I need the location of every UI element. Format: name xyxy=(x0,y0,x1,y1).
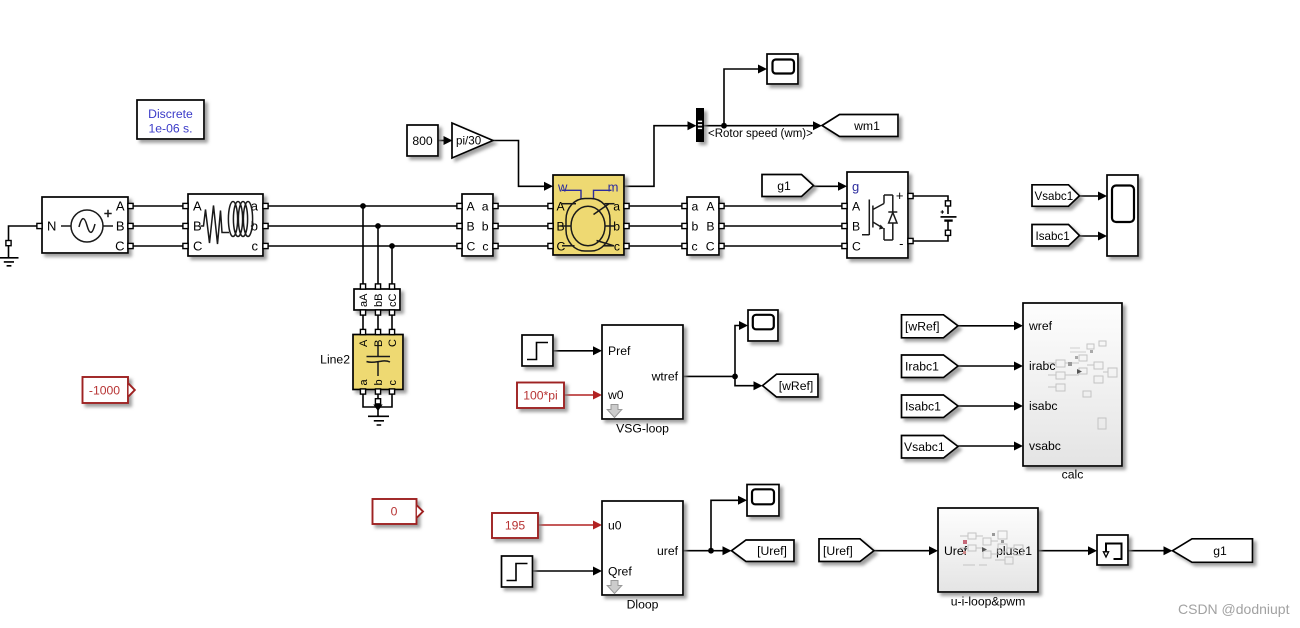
svg-text:bB: bB xyxy=(373,294,385,307)
wire Line2 outputs to ground node xyxy=(363,394,392,416)
svg-text:c: c xyxy=(482,240,488,254)
wire converter minus to DC source xyxy=(908,235,948,241)
wire branch up to uref scope xyxy=(711,496,747,551)
calc inner dark marks xyxy=(1068,350,1093,374)
three-phase programmable voltage source block xyxy=(42,197,128,254)
label VSG-loop xyxy=(616,422,669,436)
label calc xyxy=(1062,468,1084,482)
svg-text:A: A xyxy=(852,200,861,214)
node uref branch xyxy=(708,548,714,554)
svg-text:Isabc1: Isabc1 xyxy=(905,400,941,414)
wire phase A measurement1 to machine xyxy=(493,205,553,207)
svg-text:g1: g1 xyxy=(1213,544,1227,558)
node Line2 ground junction xyxy=(373,399,382,411)
svg-text:1e-06 s.: 1e-06 s. xyxy=(148,122,192,136)
svg-text:A: A xyxy=(193,199,202,214)
wire constant 800 to gain xyxy=(438,136,453,145)
wire step1 to Dloop Qref xyxy=(533,567,602,576)
scope wtref xyxy=(748,310,778,341)
svg-text:irabc: irabc xyxy=(1029,359,1055,373)
three-phase series RLC branch block xyxy=(188,194,263,256)
ports of machine xyxy=(548,203,629,248)
svg-text:[Uref]: [Uref] xyxy=(757,544,787,558)
svg-text:VSG-loop: VSG-loop xyxy=(616,422,669,436)
wire gain to machine w input xyxy=(493,141,553,191)
three-phase V-I measurement1 block xyxy=(462,194,493,256)
svg-text:u-i-loop&pwm: u-i-loop&pwm xyxy=(951,595,1026,609)
svg-text:m: m xyxy=(608,180,619,195)
wire phase c machine to measurement2 xyxy=(624,245,687,247)
scope rotor speed xyxy=(767,54,798,84)
svg-text:Vsabc1: Vsabc1 xyxy=(904,440,945,454)
svg-text:pi/30: pi/30 xyxy=(456,135,481,148)
wire branch to Uref goto xyxy=(711,546,732,555)
wire cC block to Line2 phase c xyxy=(391,315,393,331)
wire tap A down to Line2 measurement xyxy=(362,206,364,285)
svg-text:a: a xyxy=(358,379,370,386)
svg-text:B: B xyxy=(706,220,714,234)
svg-text:C: C xyxy=(467,240,476,254)
svg-text:vsabc: vsabc xyxy=(1029,439,1061,453)
ports of Line2 xyxy=(360,329,394,394)
wire machine m output to bus selector xyxy=(624,121,697,186)
svg-text:A: A xyxy=(116,199,125,214)
scope uref xyxy=(747,485,779,517)
goto tag wm1 xyxy=(822,115,898,137)
svg-text:b: b xyxy=(482,220,489,234)
svg-text:B: B xyxy=(193,219,202,234)
wire phase B measurement1 to machine xyxy=(493,225,553,227)
wire branch up to wtref scope xyxy=(735,321,748,376)
wire phase B source to RLC xyxy=(128,225,188,227)
universal bridge converter block xyxy=(847,172,908,258)
svg-text:C: C xyxy=(852,240,861,254)
wire Dloop uref output xyxy=(683,550,711,552)
wire u-i-loop to rate transition xyxy=(1038,546,1097,555)
svg-text:b: b xyxy=(373,379,385,385)
svg-text:[Uref]: [Uref] xyxy=(823,544,853,558)
wire Isabc1 to scope1 xyxy=(1080,232,1108,241)
three-phase V-I measurement aA bB cC block xyxy=(354,289,400,310)
ground G1 left xyxy=(0,241,19,266)
asynchronous machine block xyxy=(553,175,624,255)
svg-text:N: N xyxy=(47,219,56,234)
wire phase A source to RLC xyxy=(128,205,188,207)
svg-text:800: 800 xyxy=(412,134,433,148)
port b of RLC xyxy=(263,223,268,228)
u-i-loop faint inner diagram xyxy=(960,531,1023,565)
goto tag g1 xyxy=(1173,539,1253,563)
ground G2 below Line2 xyxy=(368,416,389,425)
from tag Vsabc1 top xyxy=(1032,185,1080,207)
port C of RLC xyxy=(183,243,188,248)
svg-text:u0: u0 xyxy=(608,519,622,533)
node tap B xyxy=(375,223,381,229)
constant -1000 red xyxy=(83,377,135,403)
wire branch to wRef goto xyxy=(735,376,763,390)
label Dloop xyxy=(627,598,659,612)
wire phase A measurement2 to converter xyxy=(719,205,847,207)
from tag Isabc1 top xyxy=(1032,225,1080,247)
wire Vsabc1 to scope1 xyxy=(1080,192,1108,201)
svg-text:<Rotor speed (wm)>: <Rotor speed (wm)> xyxy=(708,128,813,140)
svg-text:wtref: wtref xyxy=(651,370,679,384)
svg-text:+: + xyxy=(896,188,904,203)
constant 800 block xyxy=(407,125,438,156)
subsystem calc xyxy=(1023,303,1122,466)
svg-text:c: c xyxy=(692,240,698,254)
from tag g1 xyxy=(762,175,814,197)
svg-text:B: B xyxy=(852,220,860,234)
wire g1 from-tag to converter gate xyxy=(814,182,848,191)
node wtref branch xyxy=(732,374,738,380)
wire phase C measurement1 to machine xyxy=(493,245,553,247)
port B of source xyxy=(128,223,133,228)
svg-text:195: 195 xyxy=(505,519,526,533)
wire phase A RLC to measurement1 xyxy=(263,205,462,207)
node tap A xyxy=(360,203,366,209)
svg-text:A: A xyxy=(706,200,715,214)
constant 100*pi red xyxy=(517,383,564,409)
ports of measurement2 xyxy=(682,203,724,248)
svg-text:Discrete: Discrete xyxy=(148,107,193,121)
from tag wRef xyxy=(902,315,959,338)
constant 195 red xyxy=(492,513,538,538)
label u-i-loop&pwm xyxy=(951,595,1026,609)
node rotor speed branch xyxy=(721,123,727,129)
wire Isabc1 to calc isabc xyxy=(958,402,1023,411)
svg-text:[wRef]: [wRef] xyxy=(905,319,940,333)
port N of source xyxy=(37,223,42,228)
wire N to ground xyxy=(9,226,38,241)
subsystem VSG-loop xyxy=(602,325,683,419)
svg-text:B: B xyxy=(116,219,125,234)
powergui block Discrete 1e-06 s xyxy=(137,100,204,139)
u-i-loop inner dark marks xyxy=(963,533,1004,554)
wire Irabc1 to calc irabc xyxy=(958,362,1023,371)
port a of RLC xyxy=(263,203,268,208)
step block Pref xyxy=(522,335,553,366)
from tag Irabc1 xyxy=(902,355,959,378)
goto tag wRef xyxy=(763,374,819,397)
svg-text:a: a xyxy=(613,200,620,214)
svg-text:a: a xyxy=(482,200,489,214)
wire 100*pi to VSG w0 xyxy=(564,391,602,400)
constant 0 red xyxy=(373,499,424,524)
from tag Vsabc1 xyxy=(902,436,959,459)
port C of source xyxy=(128,243,133,248)
DC voltage source battery xyxy=(941,201,957,236)
subsystem Dloop xyxy=(602,501,683,595)
svg-text:uref: uref xyxy=(657,544,679,558)
svg-text:Dloop: Dloop xyxy=(627,598,659,612)
svg-text:c: c xyxy=(614,240,620,254)
wire tap C down to Line2 measurement xyxy=(391,246,393,285)
Line2 shunt capacitor block xyxy=(353,335,403,390)
from tag Uref xyxy=(819,539,874,562)
label Line2 xyxy=(320,353,350,367)
svg-text:C: C xyxy=(387,339,399,347)
svg-text:g1: g1 xyxy=(777,179,791,193)
wire phase b machine to measurement2 xyxy=(624,225,687,227)
subsystem u-i-loop&pwm xyxy=(938,508,1038,592)
svg-text:-1000: -1000 xyxy=(89,384,120,398)
svg-text:C: C xyxy=(115,239,124,254)
svg-text:c: c xyxy=(252,239,259,254)
bus selector block xyxy=(697,109,704,142)
svg-text:w: w xyxy=(557,180,568,195)
svg-text:cC: cC xyxy=(387,294,399,308)
svg-text:100*pi: 100*pi xyxy=(523,388,558,402)
svg-text:CSDN @dodniupt: CSDN @dodniupt xyxy=(1178,601,1290,617)
wire bus selector to wm1 tag xyxy=(704,121,823,130)
port c of RLC xyxy=(263,243,268,248)
wire bB block to Line2 phase b xyxy=(377,315,379,331)
wire step to VSG Pref xyxy=(553,346,602,355)
port A of source xyxy=(128,203,133,208)
from tag Isabc1 xyxy=(902,395,959,418)
wire tap B down to Line2 measurement xyxy=(377,226,379,285)
svg-text:b: b xyxy=(692,220,699,234)
svg-text:Irabc1: Irabc1 xyxy=(905,360,939,374)
goto tag Uref xyxy=(732,540,795,562)
svg-text:A: A xyxy=(557,200,566,214)
svg-text:Vsabc1: Vsabc1 xyxy=(1035,190,1074,203)
svg-text:calc: calc xyxy=(1062,468,1084,482)
ports of converter xyxy=(842,193,913,248)
svg-text:b: b xyxy=(613,220,620,234)
port A of RLC xyxy=(183,203,188,208)
wire phase B measurement2 to converter xyxy=(719,225,847,227)
wire aA block to Line2 phase a xyxy=(362,315,364,331)
svg-text:[wRef]: [wRef] xyxy=(779,379,814,393)
label Rotor speed (wm) xyxy=(708,128,813,140)
wire phase C RLC to measurement1 xyxy=(263,245,462,247)
wire converter plus to DC source xyxy=(908,196,948,201)
ports of measurement1 xyxy=(457,203,498,248)
calc faint inner diagram xyxy=(1048,341,1117,429)
wire Uref from-tag to u-i-loop block xyxy=(874,546,938,555)
svg-text:w0: w0 xyxy=(607,388,624,402)
svg-text:A: A xyxy=(358,339,370,347)
port B of RLC xyxy=(183,223,188,228)
svg-text:g: g xyxy=(852,179,859,194)
gain pi/30 block xyxy=(452,123,493,158)
wire rate transition to g1 goto xyxy=(1128,546,1173,555)
node tap C xyxy=(389,243,395,249)
svg-text:a: a xyxy=(692,200,699,214)
wire wRef from-tag to calc wref xyxy=(958,321,1023,330)
svg-text:wref: wref xyxy=(1028,319,1053,333)
scope1 two-input xyxy=(1107,175,1138,256)
svg-text:Line2: Line2 xyxy=(320,353,350,367)
wire phase C measurement2 to converter xyxy=(719,245,847,247)
step1 block Qref xyxy=(502,556,533,587)
svg-text:aA: aA xyxy=(358,293,370,307)
svg-text:B: B xyxy=(467,220,475,234)
watermark CSDN xyxy=(1178,601,1290,617)
svg-text:Pref: Pref xyxy=(608,344,631,358)
svg-text:Isabc1: Isabc1 xyxy=(1036,230,1070,243)
svg-text:0: 0 xyxy=(391,505,398,519)
rate transition block xyxy=(1097,535,1128,565)
wire phase a machine to measurement2 xyxy=(624,205,687,207)
svg-text:c: c xyxy=(387,380,399,386)
wire Vsabc1 to calc vsabc xyxy=(958,442,1023,451)
ports of aA bB cC block xyxy=(360,284,394,315)
svg-text:isabc: isabc xyxy=(1029,399,1057,413)
wire phase C source to RLC xyxy=(128,245,188,247)
svg-text:C: C xyxy=(193,239,202,254)
svg-text:-: - xyxy=(899,236,903,251)
svg-text:wm1: wm1 xyxy=(853,119,880,133)
svg-text:A: A xyxy=(467,200,476,214)
svg-text:Qref: Qref xyxy=(608,565,632,579)
wire 195 to Dloop u0 xyxy=(538,521,602,530)
svg-text:B: B xyxy=(373,340,385,347)
svg-text:C: C xyxy=(706,240,715,254)
wire branch up to rotor speed scope xyxy=(724,65,767,126)
wire phase B RLC to measurement1 xyxy=(263,225,462,227)
three-phase V-I measurement2 block xyxy=(687,197,719,255)
wire VSG wtref output xyxy=(683,375,735,377)
